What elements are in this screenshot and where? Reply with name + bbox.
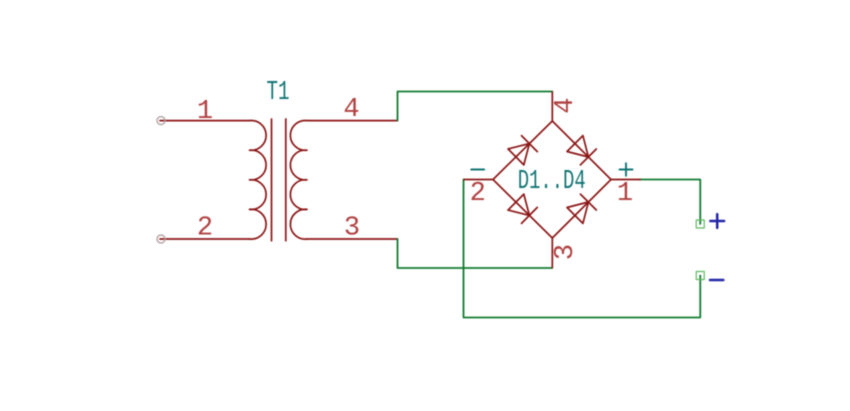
svg-text:2: 2 — [470, 179, 486, 209]
wire: bridge pin2 to - output — [464, 180, 701, 318]
svg-text:2: 2 — [197, 214, 213, 244]
bridge diamond outline — [493, 121, 611, 238]
svg-text:1: 1 — [617, 179, 633, 209]
wire: bridge pin1 to + output — [640, 180, 700, 225]
wire: transformer pin4 to bridge top node — [398, 92, 553, 121]
unconnected pin circle pin2 — [157, 235, 165, 243]
unconnected wire square + — [696, 220, 704, 228]
svg-text:3: 3 — [551, 244, 581, 260]
svg-text:4: 4 — [343, 95, 359, 125]
diode bridge D1..D4 — [464, 92, 640, 268]
svg-text:1: 1 — [197, 97, 213, 127]
svg-text:3: 3 — [344, 214, 360, 244]
text labels — [197, 95, 633, 260]
bridge pin 1 stub — [611, 179, 640, 181]
transformer T1 — [160, 119, 398, 241]
svg-text:D1..D4: D1..D4 — [518, 167, 586, 197]
primary winding — [250, 121, 267, 240]
diode D2 top-right — [567, 136, 596, 165]
pin 2 wire — [160, 238, 250, 240]
label - (blue) output node — [710, 279, 723, 282]
pin name - (teal) at bridge pin 2 — [471, 169, 484, 171]
pin 4 wire — [307, 120, 398, 122]
bridge pin 3 stub — [551, 238, 553, 268]
svg-text:4: 4 — [551, 98, 581, 114]
pin 3 wire — [307, 238, 398, 240]
pin 1 wire — [160, 120, 250, 122]
pin name + (teal) at bridge pin 1 — [620, 163, 633, 176]
diode D4 bottom-right — [567, 194, 596, 223]
label + (blue) output node — [710, 214, 724, 228]
wire: transformer pin3 to bridge bottom node — [398, 239, 553, 268]
diode D3 bottom-left — [508, 194, 537, 223]
core line right — [285, 119, 287, 241]
bridge pin 4 stub — [551, 92, 553, 121]
core line left — [271, 119, 273, 241]
unconnected pin circle pin1 — [157, 117, 165, 125]
diode D1 top-left — [508, 136, 537, 165]
bridge pin 2 stub — [464, 179, 493, 181]
secondary winding — [290, 121, 307, 240]
svg-text:T1: T1 — [267, 78, 290, 108]
unconnected wire square - — [696, 272, 704, 280]
